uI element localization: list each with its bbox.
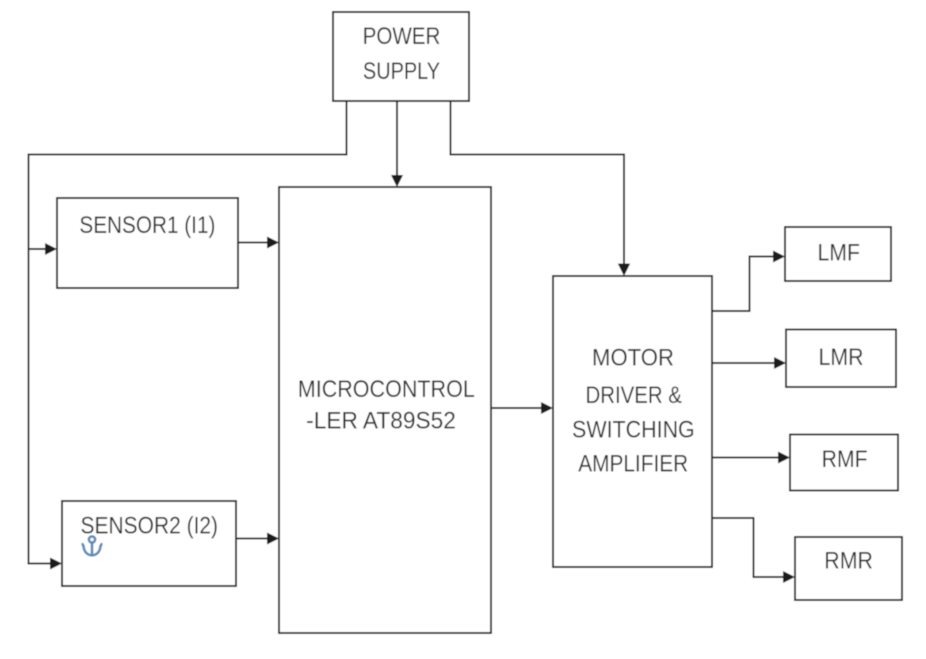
microcontroller U1 box bbox=[279, 187, 491, 633]
wire power supply center leg to microcontroller bbox=[396, 101, 398, 177]
svg-text:LMF: LMF bbox=[818, 240, 860, 267]
wire sensor1 to microcontroller bbox=[238, 242, 269, 244]
LMR box bbox=[786, 330, 896, 388]
arrowhead into microcontroller top bbox=[391, 175, 403, 187]
svg-text:LMR: LMR bbox=[819, 344, 864, 371]
wire sensor2 to microcontroller bbox=[236, 538, 269, 540]
svg-text:SUPPLY: SUPPLY bbox=[363, 58, 440, 85]
LMF box bbox=[785, 227, 891, 281]
wire motor driver to RMR bbox=[712, 518, 785, 577]
svg-text:POWER: POWER bbox=[363, 23, 441, 50]
power supply box bbox=[333, 12, 469, 101]
arrowhead into RMF bbox=[778, 452, 790, 464]
arrowhead microcontroller to motor driver bbox=[541, 402, 553, 414]
wire microcontroller to motor driver bbox=[491, 407, 543, 409]
svg-text:DRIVER &: DRIVER & bbox=[585, 382, 682, 409]
wire motor driver to RMF bbox=[712, 457, 780, 459]
svg-text:RMF: RMF bbox=[822, 446, 868, 473]
svg-text:AMPLIFIER: AMPLIFIER bbox=[578, 451, 688, 478]
arrowhead sensor1 to microcontroller bbox=[267, 237, 279, 249]
RMR box bbox=[795, 537, 902, 600]
svg-text:SENSOR2 (I2): SENSOR2 (I2) bbox=[81, 513, 219, 540]
wire power supply left leg to sensors bbox=[29, 101, 347, 564]
arrowhead into sensor2 bbox=[50, 558, 62, 570]
wire branch to sensor1 bbox=[29, 248, 47, 250]
anchor icon (Word object anchor) bbox=[83, 536, 102, 555]
svg-text:SWITCHING: SWITCHING bbox=[572, 417, 695, 444]
arrowhead into sensor1 bbox=[45, 243, 57, 255]
svg-text:MICROCONTROL: MICROCONTROL bbox=[298, 376, 475, 403]
wire motor driver to LMR bbox=[712, 362, 776, 364]
motor driver box bbox=[553, 276, 712, 567]
wire power supply right leg to motor driver bbox=[451, 101, 625, 266]
arrowhead into RMR bbox=[783, 571, 795, 583]
arrowhead into LMF bbox=[773, 251, 785, 263]
sensor2 box bbox=[62, 501, 236, 586]
arrowhead sensor2 to microcontroller bbox=[267, 533, 279, 545]
arrowhead into LMR bbox=[774, 357, 786, 369]
svg-text:RMR: RMR bbox=[824, 548, 873, 575]
svg-text:MOTOR: MOTOR bbox=[592, 344, 674, 371]
sensor1 box bbox=[57, 198, 238, 288]
arrowhead into motor driver top bbox=[618, 264, 630, 277]
svg-text:-LER AT89S52: -LER AT89S52 bbox=[306, 408, 456, 435]
RMF box bbox=[790, 435, 898, 491]
wire motor driver to LMF bbox=[712, 257, 775, 312]
svg-text:SENSOR1 (I1): SENSOR1 (I1) bbox=[79, 212, 215, 239]
